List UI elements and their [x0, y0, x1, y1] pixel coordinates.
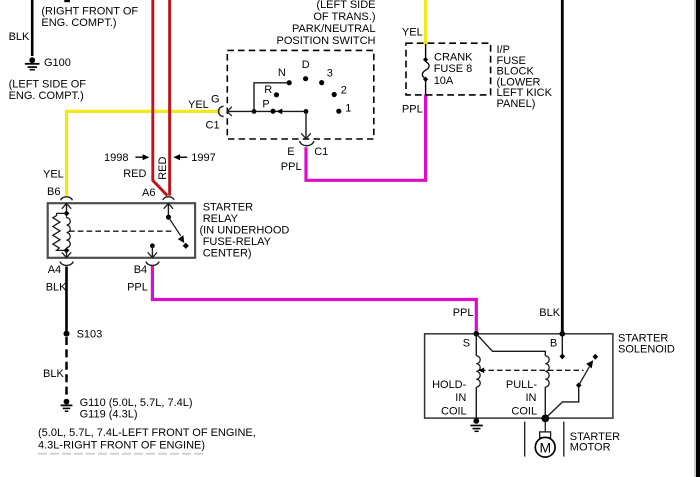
svg-text:G100: G100	[44, 57, 71, 69]
cut-off text fragment bottom edge	[38, 453, 203, 455]
connector C1-G arrowhead	[227, 107, 232, 116]
svg-text:(LEFT SIDE: (LEFT SIDE	[316, 0, 375, 11]
svg-text:FUSE 8: FUSE 8	[434, 63, 473, 75]
connector C1-G half-circle	[219, 106, 224, 116]
svg-text:MOTOR: MOTOR	[570, 441, 611, 453]
svg-text:IN: IN	[526, 392, 537, 404]
svg-text:P: P	[262, 98, 269, 110]
wire node to starter motor	[544, 418, 546, 432]
svg-text:A6: A6	[142, 187, 155, 199]
motor bracket line right	[563, 422, 565, 457]
svg-text:COIL: COIL	[511, 405, 537, 417]
svg-text:BLK: BLK	[539, 307, 560, 319]
svg-text:B4: B4	[134, 264, 147, 276]
hold-in coil winding	[476, 356, 480, 387]
svg-text:CENTER): CENTER)	[203, 248, 252, 260]
contact arm pointer	[579, 367, 590, 386]
svg-text:G: G	[211, 93, 220, 105]
fixed contact diamond upper	[593, 354, 599, 360]
wire down to E terminal	[305, 111, 307, 138]
relay coil resistor zigzag	[53, 213, 67, 250]
terminal B dot	[560, 331, 566, 337]
contact R	[274, 92, 279, 97]
svg-text:2: 2	[341, 85, 347, 97]
svg-text:COIL: COIL	[441, 405, 467, 417]
svg-text:PPL: PPL	[281, 161, 302, 173]
svg-text:BLK: BLK	[43, 368, 64, 380]
contact arm pointer arrowhead	[586, 360, 593, 368]
junction diamond coil top	[64, 210, 70, 216]
svg-text:A4: A4	[48, 264, 61, 276]
wire BLK vertical to solenoid B	[561, 0, 564, 334]
svg-text:C1: C1	[206, 119, 220, 131]
svg-text:10A: 10A	[434, 75, 454, 87]
wire B6 to coil	[66, 203, 68, 212]
contact P	[270, 109, 275, 114]
connector A6 half-circle	[163, 197, 174, 200]
svg-text:(RIGHT FRONT OF: (RIGHT FRONT OF	[41, 6, 138, 18]
relay switch arm arrowhead	[178, 235, 185, 243]
contact N	[287, 80, 292, 85]
ground G100	[25, 57, 40, 69]
relay coil winding arcs	[67, 216, 71, 247]
svg-text:YEL: YEL	[43, 168, 64, 180]
wire from C1-G into switch	[227, 110, 306, 112]
fuse F8 lead bottom	[425, 81, 427, 95]
terminal B6 arrowhead	[62, 203, 71, 208]
starter solenoid box	[425, 334, 613, 418]
node motor junction dot	[541, 415, 549, 423]
svg-text:IN: IN	[455, 392, 466, 404]
relay switch arm	[169, 217, 181, 236]
svg-text:D: D	[302, 59, 310, 71]
svg-text:PARK/NEUTRAL: PARK/NEUTRAL	[292, 23, 376, 35]
svg-text:S103: S103	[77, 329, 103, 341]
label 1997 with arrow	[173, 154, 180, 160]
svg-text:1: 1	[345, 103, 351, 115]
mechanical dashed link relay	[69, 230, 174, 232]
svg-text:SOLENOID: SOLENOID	[618, 343, 675, 355]
junction diamond coil bottom	[64, 247, 70, 253]
wire RED 1998	[153, 0, 168, 196]
fuse element S-curve	[422, 62, 429, 79]
contact 3	[319, 80, 324, 85]
cut-off ink fragment top edge	[64, 0, 70, 2]
fixed contact diamond B	[560, 353, 566, 359]
svg-text:OF TRANS.): OF TRANS.)	[313, 11, 375, 23]
park/neutral position switch dashed box	[227, 50, 373, 139]
mechanical dashed link solenoid	[480, 369, 584, 371]
wire coil to A4	[66, 250, 68, 258]
splice S103 dot	[64, 331, 70, 337]
starter motor circle	[535, 437, 555, 457]
svg-text:E: E	[287, 146, 294, 158]
svg-text:PULL-: PULL-	[506, 379, 538, 391]
svg-text:(LEFT SIDE OF: (LEFT SIDE OF	[9, 78, 87, 90]
svg-text:PPL: PPL	[453, 307, 474, 319]
wire BLK dashed from S103 to ground G110	[65, 337, 68, 397]
svg-text:N: N	[278, 67, 286, 79]
svg-text:ENG. COMPT.): ENG. COMPT.)	[41, 17, 116, 29]
page scan border right edge	[696, 0, 700, 477]
svg-text:ENG. COMPT.): ENG. COMPT.)	[9, 90, 84, 102]
wire S to pull-in coil	[476, 334, 545, 356]
starter motor terminal box	[540, 432, 551, 438]
wire BLK from relay A4 to splice S103	[65, 267, 68, 332]
connector A4 half-circle	[60, 262, 73, 266]
svg-text:RED: RED	[157, 157, 169, 180]
svg-text:HOLD-: HOLD-	[432, 379, 467, 391]
terminal A6 arrowhead	[164, 203, 173, 208]
svg-text:PPL: PPL	[127, 281, 148, 293]
wire PPL from PNP switch E to crank fuse	[306, 95, 426, 181]
terminal A4 arrowhead	[62, 252, 71, 257]
ground G110/G119	[61, 399, 73, 412]
solenoid ground bars	[470, 425, 482, 427]
svg-text:YEL: YEL	[188, 99, 209, 111]
svg-text:CRANK: CRANK	[434, 52, 473, 64]
wire B to fixed contact	[561, 334, 563, 354]
wire YEL vertical into crank fuse	[424, 0, 427, 45]
svg-text:BLK: BLK	[9, 31, 30, 43]
relay switch pivot dot	[166, 215, 171, 220]
svg-text:S: S	[463, 337, 470, 349]
fuse terminal diamond bottom	[423, 77, 428, 82]
wire BLK to ground G100	[31, 0, 34, 56]
svg-text:YEL: YEL	[402, 27, 423, 39]
svg-text:STARTER: STARTER	[203, 202, 253, 214]
node junction left	[252, 109, 257, 114]
svg-text:3: 3	[327, 68, 333, 80]
contact D	[303, 76, 308, 81]
svg-text:G119 (4.3L): G119 (4.3L)	[80, 408, 138, 420]
contact 1	[336, 109, 341, 114]
wire pull-in coil to node	[544, 387, 546, 418]
svg-text:RELAY: RELAY	[203, 213, 239, 225]
relay switch arm end diamond	[183, 243, 189, 249]
I/P fuse block dashed box	[406, 43, 491, 95]
svg-text:B: B	[550, 337, 557, 349]
svg-text:C1: C1	[314, 146, 328, 158]
solenoid internal ground dot	[473, 418, 479, 424]
svg-text:(5.0L, 5.7L, 7.4L-LEFT FRONT O: (5.0L, 5.7L, 7.4L-LEFT FRONT OF ENGINE,	[38, 427, 256, 439]
solenoid contact arm	[545, 385, 578, 418]
svg-text:(IN UNDERHOOD: (IN UNDERHOOD	[200, 225, 290, 237]
svg-text:B6: B6	[47, 186, 60, 198]
wire hold-in coil to ground	[475, 387, 477, 421]
svg-text:1998: 1998	[104, 152, 128, 164]
svg-text:POSITION SWITCH: POSITION SWITCH	[277, 35, 376, 47]
contact 2	[332, 92, 337, 97]
wire A6 to switch pivot	[167, 203, 169, 217]
wire PPL from relay B4 to solenoid S	[152, 266, 476, 334]
contact arm pivot diamond	[576, 383, 582, 389]
terminal B4 arrowhead	[148, 252, 157, 257]
svg-text:BLK: BLK	[46, 281, 67, 293]
svg-text:1997: 1997	[191, 152, 215, 164]
wire YEL horizontal + drop to relay B6	[67, 111, 221, 196]
terminal E arrowhead	[301, 133, 311, 139]
starter relay box	[48, 203, 195, 258]
wiper arrowhead at P	[276, 109, 282, 115]
svg-text:PPL: PPL	[402, 104, 423, 116]
fuse terminal diamond top	[423, 57, 428, 62]
svg-text:PANEL): PANEL)	[497, 98, 536, 110]
wire up to N contact	[254, 83, 287, 112]
wire RED 1997	[168, 0, 171, 196]
connector B4 half-circle	[146, 262, 159, 266]
wire B4	[151, 246, 153, 258]
pull-in coil winding	[545, 356, 549, 387]
svg-text:RED: RED	[123, 168, 146, 180]
wire S to hold-in coil	[475, 334, 477, 356]
svg-text:FUSE-RELAY: FUSE-RELAY	[203, 236, 272, 248]
terminal B4 dot	[150, 243, 155, 248]
connector B6 half-circle	[61, 197, 73, 201]
svg-text:M: M	[539, 439, 551, 455]
svg-text:R: R	[264, 84, 272, 96]
fuse F8 lead top	[425, 44, 427, 58]
node junction E drop	[304, 109, 309, 114]
motor bracket line left	[524, 422, 526, 457]
mechanical link arrowhead at hold-in coil	[478, 368, 484, 374]
connector E-C1 half-circle	[300, 141, 314, 146]
terminal S dot	[474, 331, 480, 337]
svg-text:4.3L-RIGHT FRONT OF ENGINE): 4.3L-RIGHT FRONT OF ENGINE)	[38, 439, 205, 451]
